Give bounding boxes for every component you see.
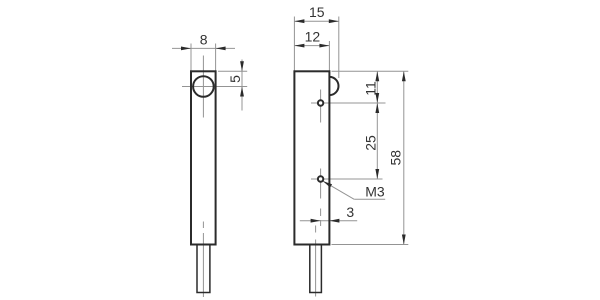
svg-text:58: 58	[388, 150, 404, 166]
dimension 8 line	[172, 47, 235, 49]
M3 leader underline	[354, 198, 385, 200]
dimension 15 extension line right	[338, 17, 340, 79]
dimension 12 left arrow	[294, 44, 304, 48]
dimension 15 extension line left	[293, 17, 295, 71]
dimension 15 right arrow	[329, 19, 339, 23]
dimension 5 top arrow	[240, 61, 244, 71]
svg-text:25: 25	[362, 135, 378, 151]
hole2 horizontal centerline / extension for 25	[311, 178, 383, 180]
left view body outline	[191, 71, 216, 244]
hole2 circle	[318, 176, 323, 181]
hole1 vertical centerline	[320, 90, 322, 123]
dimension 58 top arrow	[402, 71, 406, 81]
dimension 3 line	[300, 220, 357, 222]
svg-text:12: 12	[305, 28, 321, 44]
svg-text:3: 3	[346, 204, 354, 220]
dimension 15 left arrow	[294, 19, 304, 23]
dimension 12 line	[294, 45, 329, 47]
dimension 5 top extension line	[218, 70, 247, 72]
dimension 25 bottom arrow	[375, 169, 379, 179]
right view cable	[310, 245, 322, 293]
dimension 15 line	[294, 20, 338, 22]
dimension 12 extension line right	[328, 41, 330, 71]
hole1 horizontal centerline / extension for 11 and 25	[311, 102, 386, 104]
dimension 58 line	[403, 71, 405, 244]
dimension 8 right arrow	[216, 47, 226, 51]
hole2 vertical centerline extended to dimension 3	[320, 169, 322, 227]
M3 leader diagonal line	[323, 181, 354, 199]
left view vertical centerline	[202, 56, 204, 298]
svg-text:11: 11	[362, 81, 378, 96]
dimension 25 line	[376, 103, 378, 179]
dimension 8 extension line left	[190, 44, 192, 71]
dimension 3 left arrow	[311, 219, 321, 223]
dimension 58 bottom arrow	[402, 235, 406, 245]
left view circle horizontal centerline	[182, 86, 247, 88]
hole1 circle	[318, 100, 323, 105]
svg-text:15: 15	[309, 4, 325, 20]
dimension 8 left arrow	[181, 47, 191, 51]
left view cable	[197, 245, 210, 293]
dimension 58 top extension line	[332, 70, 409, 72]
right view cable centerline	[315, 226, 317, 297]
right view body outline	[294, 71, 329, 244]
dimension 25 top arrow	[375, 103, 379, 113]
dimension 5 bottom arrow	[240, 87, 244, 97]
dimension 3 right arrow	[329, 219, 339, 223]
left view sensing circle	[193, 76, 214, 97]
dimension 8 extension line right	[215, 44, 217, 71]
dimension 12 right arrow	[319, 44, 329, 48]
dimension 11 top arrow	[375, 71, 379, 81]
dimension 11 line	[376, 71, 378, 103]
dimension 58 bottom extension line	[332, 244, 409, 246]
svg-text:M3: M3	[365, 184, 385, 200]
svg-text:5: 5	[227, 75, 243, 83]
dimension 11 bottom arrow	[375, 93, 379, 103]
svg-text:8: 8	[200, 32, 208, 48]
M3 leader arrow at hole2	[323, 181, 332, 187]
dimension 5 line	[241, 60, 243, 111]
right view bulge semicircle	[329, 77, 338, 95]
